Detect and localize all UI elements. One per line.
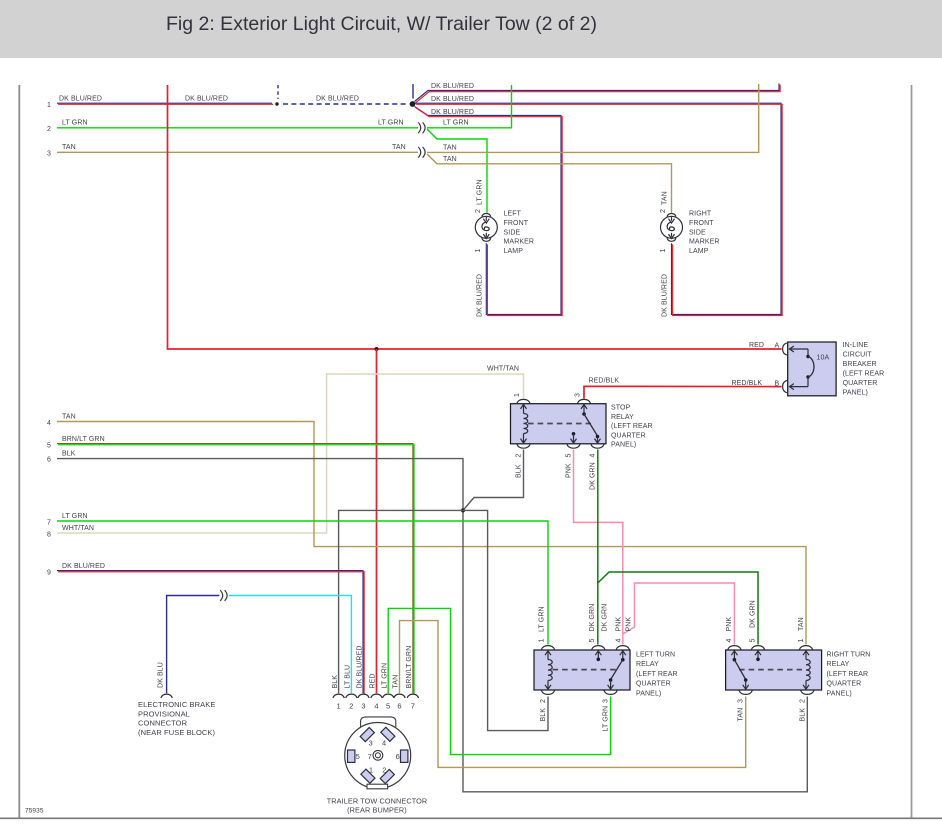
svg-text:DK GRN: DK GRN — [750, 600, 757, 628]
trailer connector centre pin 7 — [373, 750, 383, 760]
connector C200 on row2 — [418, 122, 421, 133]
svg-text:IN-LINE: IN-LINE — [843, 342, 869, 349]
svg-text:1: 1 — [475, 249, 482, 253]
svg-text:5: 5 — [356, 752, 360, 761]
svg-text:5: 5 — [386, 702, 390, 711]
svg-text:MARKER: MARKER — [689, 239, 720, 246]
svg-text:Fig 2: Exterior Light Circuit,: Fig 2: Exterior Light Circuit, W/ Traile… — [166, 13, 597, 35]
svg-text:PNK: PNK — [726, 617, 733, 632]
svg-text:DK GRN: DK GRN — [602, 604, 609, 632]
wire LT GRN left relay pin3 to trailer pin5 — [388, 608, 610, 754]
trailer connector slot 5 — [348, 750, 355, 762]
wire WHT/TAN row8 to stop relay pin1 — [57, 374, 524, 533]
svg-text:DK BLU/RED: DK BLU/RED — [431, 96, 474, 103]
svg-text:5: 5 — [47, 443, 51, 450]
wire RED main — [168, 85, 782, 349]
wire row2 branch to left lamp — [427, 129, 487, 213]
svg-text:LT GRN: LT GRN — [539, 606, 546, 632]
svg-text:PANEL): PANEL) — [636, 690, 661, 697]
wire RED down to trailer pin 4 — [376, 349, 378, 693]
svg-text:7: 7 — [47, 519, 51, 526]
wire BLK branch to stop relay pin2 — [464, 450, 524, 510]
svg-text:WHT/TAN: WHT/TAN — [487, 366, 519, 373]
svg-text:6: 6 — [396, 752, 400, 761]
svg-text:TAN: TAN — [62, 144, 76, 151]
svg-text:1: 1 — [47, 102, 51, 109]
svg-text:DK BLU: DK BLU — [158, 662, 165, 688]
svg-text:DK BLU/RED: DK BLU/RED — [59, 96, 102, 103]
svg-text:TAN: TAN — [62, 413, 76, 420]
wire BLK branch to left turn relay pin2 — [463, 510, 548, 730]
svg-text:TAN: TAN — [738, 708, 745, 722]
trailer pin 2 LT BLU — [346, 694, 357, 698]
svg-text:(LEFT REAR: (LEFT REAR — [843, 371, 885, 378]
wire row7 LT GRN to left turn relay pin1 — [57, 521, 548, 645]
svg-text:CIRCUIT: CIRCUIT — [843, 352, 873, 359]
wire row6 BLK main — [57, 459, 807, 792]
trailer connector slot 4 — [381, 727, 395, 741]
svg-text:8: 8 — [47, 531, 51, 538]
svg-text:DK BLU/RED: DK BLU/RED — [431, 109, 474, 116]
svg-text:LT BLU: LT BLU — [345, 665, 352, 689]
svg-text:1: 1 — [514, 393, 521, 397]
svg-text:4: 4 — [382, 739, 386, 748]
svg-text:BLK: BLK — [332, 675, 339, 689]
wire row9 DK BLU/RED to trailer pin3 — [57, 571, 363, 694]
svg-text:RED: RED — [370, 673, 377, 688]
electronic brake wire end — [161, 694, 172, 698]
left relay pin5 stub — [595, 651, 601, 655]
trailer connector slot 6 — [401, 750, 408, 762]
svg-text:QUARTER: QUARTER — [843, 380, 878, 387]
svg-text:TRAILER TOW CONNECTOR: TRAILER TOW CONNECTOR — [327, 797, 428, 806]
svg-text:FRONT: FRONT — [504, 220, 529, 227]
svg-text:RIGHT: RIGHT — [689, 211, 712, 218]
svg-text:BRN/LT GRN: BRN/LT GRN — [406, 646, 413, 689]
svg-text:PROVISIONAL: PROVISIONAL — [138, 709, 190, 718]
svg-text:2: 2 — [800, 699, 807, 703]
wire LT BLU to trailer pin2 — [229, 596, 352, 694]
page border bottom — [0, 817, 942, 819]
svg-text:TAN: TAN — [393, 675, 400, 689]
svg-text:2: 2 — [382, 766, 386, 775]
svg-text:LT GRN: LT GRN — [62, 120, 88, 127]
svg-text:PNK: PNK — [616, 617, 623, 632]
svg-text:3: 3 — [603, 699, 610, 703]
svg-text:2: 2 — [475, 209, 482, 213]
svg-text:LT GRN: LT GRN — [477, 179, 484, 205]
svg-text:TAN: TAN — [392, 144, 406, 151]
svg-text:CONNECTOR: CONNECTOR — [138, 719, 188, 728]
trailer connector slot 1 — [361, 769, 375, 783]
wire branch1 DK BLU/RED top — [415, 84, 780, 102]
svg-text:(LEFT REAR: (LEFT REAR — [636, 671, 678, 678]
trailer pin 4 RED — [371, 694, 382, 698]
svg-text:A: A — [775, 343, 780, 350]
svg-text:2: 2 — [540, 699, 547, 703]
connector C202 electronic brake — [220, 590, 223, 601]
wire row4 TAN to right turn relay pin1 — [57, 422, 806, 645]
junction dot RED — [375, 347, 379, 351]
svg-text:4: 4 — [47, 420, 51, 427]
svg-text:MARKER: MARKER — [504, 239, 535, 246]
svg-text:RELAY: RELAY — [827, 661, 850, 668]
left relay switch — [620, 651, 626, 655]
wire DK BLU electronic brake — [167, 596, 220, 694]
right relay switch — [731, 651, 737, 655]
svg-text:B: B — [775, 381, 780, 388]
svg-text:2: 2 — [349, 702, 353, 711]
right turn relay K3 — [726, 650, 822, 690]
left relay dashed link — [553, 669, 617, 671]
stop relay pin5 stub — [572, 432, 576, 436]
wire branch2 DK BLU/RED to right lamp — [415, 103, 781, 314]
trailer connector slot 2 — [380, 769, 394, 783]
svg-text:TAN: TAN — [443, 156, 457, 163]
trailer connector slot 3 — [360, 727, 374, 741]
svg-text:TAN: TAN — [662, 191, 669, 205]
svg-text:(LEFT REAR: (LEFT REAR — [611, 423, 653, 430]
wire TAN right relay pin3 to trailer pin6 — [400, 621, 746, 768]
trailer pin 6 TAN — [394, 694, 405, 698]
wire stub up from J1 — [412, 84, 414, 99]
svg-text:STOP: STOP — [611, 405, 631, 412]
svg-text:DK BLU/RED: DK BLU/RED — [185, 96, 228, 103]
svg-text:LT GRN: LT GRN — [62, 513, 88, 520]
svg-text:5: 5 — [750, 639, 757, 643]
svg-text:5: 5 — [589, 639, 596, 643]
wire PNK branch to right turn relay pin4 — [623, 583, 735, 645]
svg-text:DK GRN: DK GRN — [589, 604, 596, 632]
svg-text:LEFT: LEFT — [504, 211, 522, 218]
svg-text:RED/BLK: RED/BLK — [732, 380, 763, 387]
svg-text:LT GRN: LT GRN — [381, 663, 388, 689]
svg-text:DK BLU/RED: DK BLU/RED — [316, 96, 359, 103]
svg-text:2: 2 — [660, 209, 667, 213]
svg-text:QUARTER: QUARTER — [827, 681, 862, 688]
svg-text:4: 4 — [616, 639, 623, 643]
svg-text:WHT/TAN: WHT/TAN — [62, 525, 94, 532]
svg-text:LAMP: LAMP — [504, 248, 524, 255]
svg-text:ELECTRONIC BRAKE: ELECTRONIC BRAKE — [138, 700, 215, 709]
wire RED/BLK from stop relay to breaker — [584, 386, 782, 398]
title bar — [0, 0, 942, 58]
svg-text:DK BLU/RED: DK BLU/RED — [357, 645, 364, 688]
connector C201 on row3 — [418, 147, 421, 158]
svg-text:PANEL): PANEL) — [827, 690, 852, 697]
wire row2 branch stub up — [427, 85, 512, 128]
left turn relay K2 — [534, 650, 630, 690]
right relay dashed link — [739, 669, 802, 671]
svg-text:DK GRN: DK GRN — [590, 462, 597, 490]
svg-text:(NEAR FUSE BLOCK): (NEAR FUSE BLOCK) — [138, 728, 216, 737]
svg-text:RELAY: RELAY — [636, 661, 659, 668]
trailer connector bottom notch — [367, 784, 388, 789]
trailer pin 3 DK BLU/RED — [358, 694, 369, 698]
svg-text:PANEL): PANEL) — [843, 390, 868, 397]
svg-text:1: 1 — [798, 639, 805, 643]
svg-text:RELAY: RELAY — [611, 414, 634, 421]
wire row1 dashed vertical stub — [277, 85, 279, 99]
trailer pin 7 BRN/LT GRN — [407, 694, 418, 698]
wire row5 BRN/LT GRN to trailer pin7 — [57, 444, 413, 694]
trailer pin 1 BLK — [333, 694, 344, 698]
svg-text:SIDE: SIDE — [504, 229, 521, 236]
trailer tow connector body — [361, 717, 396, 727]
stop relay coil — [521, 405, 527, 409]
stop relay dashed link — [528, 423, 591, 425]
svg-text:LT GRN: LT GRN — [443, 120, 469, 127]
right front side marker lamp — [667, 214, 676, 217]
right relay coil — [803, 651, 809, 655]
svg-text:4: 4 — [374, 702, 378, 711]
svg-text:TAN: TAN — [798, 617, 805, 631]
svg-text:4: 4 — [726, 639, 733, 643]
stop relay switch — [581, 405, 587, 409]
svg-text:4: 4 — [590, 454, 597, 458]
svg-text:BLK: BLK — [516, 464, 523, 478]
svg-text:1: 1 — [660, 249, 667, 253]
svg-text:LEFT TURN: LEFT TURN — [636, 652, 675, 659]
left front side marker lamp — [482, 214, 491, 217]
svg-text:1: 1 — [539, 639, 546, 643]
svg-text:QUARTER: QUARTER — [611, 432, 646, 439]
svg-text:RED/BLK: RED/BLK — [589, 377, 620, 384]
wire row3 branch to right lamp — [427, 154, 672, 213]
wire branch3 DK BLU/RED to left lamp — [415, 107, 562, 315]
wire row1 dashed segment — [283, 103, 407, 105]
wire DK GRN branch to right relay pin5 — [598, 572, 758, 645]
svg-text:(LEFT REAR: (LEFT REAR — [827, 671, 869, 678]
svg-text:PANEL): PANEL) — [611, 442, 636, 449]
wire row1 DK BLU/RED solid segment — [57, 102, 272, 104]
svg-text:BRN/LT GRN: BRN/LT GRN — [62, 436, 105, 443]
svg-text:3: 3 — [738, 699, 745, 703]
in-line circuit breaker CB1 — [788, 342, 836, 396]
svg-text:7: 7 — [411, 702, 415, 711]
svg-text:6: 6 — [47, 457, 51, 464]
svg-text:DK BLU/RED: DK BLU/RED — [477, 274, 484, 317]
stop relay K1 — [511, 404, 607, 444]
svg-text:BREAKER: BREAKER — [843, 361, 877, 368]
left relay coil — [545, 651, 551, 655]
svg-text:3: 3 — [47, 151, 51, 158]
svg-text:DK BLU/RED: DK BLU/RED — [431, 83, 474, 90]
svg-text:RIGHT TURN: RIGHT TURN — [827, 652, 871, 659]
svg-text:5: 5 — [566, 454, 573, 458]
svg-text:3: 3 — [361, 702, 365, 711]
svg-text:BLK: BLK — [62, 450, 76, 457]
svg-text:1: 1 — [369, 766, 373, 775]
wire row3 branch stub up — [427, 84, 759, 152]
wire BLK branch to trailer pin1 — [339, 510, 463, 693]
svg-text:BLK: BLK — [540, 708, 547, 722]
svg-text:DK BLU/RED: DK BLU/RED — [62, 563, 105, 570]
svg-text:(REAR BUMPER): (REAR BUMPER) — [347, 806, 407, 815]
svg-text:FRONT: FRONT — [689, 220, 714, 227]
junction node J1 — [410, 101, 416, 107]
svg-text:2: 2 — [47, 126, 51, 133]
svg-text:RED: RED — [749, 342, 764, 349]
svg-text:1: 1 — [336, 702, 340, 711]
svg-text:7: 7 — [368, 752, 372, 761]
wire row2 LT GRN — [57, 127, 418, 129]
svg-text:SIDE: SIDE — [689, 229, 706, 236]
svg-text:DK BLU/RED: DK BLU/RED — [662, 274, 669, 317]
svg-text:2: 2 — [516, 454, 523, 458]
right relay pin5 stub — [755, 651, 761, 655]
svg-text:75935: 75935 — [25, 808, 44, 815]
svg-text:LT GRN: LT GRN — [603, 706, 610, 732]
wire PNK from stop relay pin5 — [574, 450, 623, 645]
svg-text:10A: 10A — [817, 355, 830, 362]
wire DK GRN stop relay pin4 to left relay pin5 — [597, 450, 599, 645]
svg-text:QUARTER: QUARTER — [636, 681, 671, 688]
svg-text:9: 9 — [47, 570, 51, 577]
trailer pin 5 LT GRN — [383, 694, 394, 698]
svg-text:6: 6 — [397, 702, 401, 711]
page border right — [911, 85, 913, 818]
svg-text:PNK: PNK — [566, 463, 573, 478]
svg-text:3: 3 — [575, 393, 582, 397]
svg-text:TAN: TAN — [443, 145, 457, 152]
junction dot BLK — [461, 508, 465, 512]
svg-text:LAMP: LAMP — [689, 248, 709, 255]
splice dot on row1 — [275, 102, 278, 105]
svg-text:PNK: PNK — [626, 617, 633, 632]
svg-text:LT GRN: LT GRN — [378, 120, 404, 127]
wire row3 TAN — [57, 151, 418, 153]
svg-text:BLK: BLK — [800, 708, 807, 722]
page border left — [18, 85, 20, 818]
svg-text:3: 3 — [368, 739, 372, 748]
